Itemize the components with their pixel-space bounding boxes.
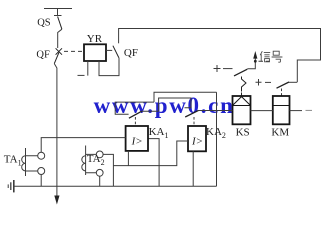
wire KS contact left stub bbox=[223, 68, 233, 70]
mechanical dashed link QF to YR bbox=[64, 50, 83, 52]
wire common run bbox=[113, 141, 188, 166]
TA1 secondary terminal top bbox=[38, 152, 45, 159]
mechanical dashed link KA2 bbox=[193, 117, 195, 126]
wire common down to bus bbox=[216, 92, 218, 186]
contactor contact KM blade bbox=[277, 82, 290, 88]
wire TA2 links bbox=[86, 154, 97, 172]
wire TA2 to common bbox=[103, 154, 113, 186]
control plus bus wire bbox=[119, 29, 321, 83]
node plus terminal KS row bbox=[214, 65, 221, 72]
KS divider and flag bbox=[233, 97, 251, 106]
QS fixed contact tick bbox=[54, 15, 62, 17]
svg-text:KA2: KA2 bbox=[206, 126, 226, 140]
wire QS to QF bbox=[58, 29, 62, 48]
current relay contact KA1 blade bbox=[129, 111, 142, 118]
wire dashed to signal bus bbox=[259, 60, 271, 62]
wire KA1 feed bbox=[115, 102, 154, 114]
YR left lead bbox=[87, 61, 89, 76]
current relay KA1 box bbox=[126, 126, 148, 151]
breaker QF blade bbox=[54, 53, 59, 64]
wire TA1 to ground bus bbox=[40, 175, 42, 187]
negative terminal dash bbox=[78, 74, 85, 76]
busbar top bbox=[44, 8, 72, 10]
dash to minus bbox=[306, 109, 313, 111]
svg-text:YR: YR bbox=[87, 33, 103, 45]
node junction dot bbox=[254, 60, 257, 63]
svg-text:TA1: TA1 bbox=[4, 154, 22, 168]
wire KA2 tip to KS coil bbox=[199, 110, 233, 112]
TA2 secondary terminal top bbox=[96, 151, 103, 158]
signal relay contact KS blade bbox=[234, 69, 247, 76]
node plus terminal KM row bbox=[256, 79, 262, 86]
aux contact QF blade bbox=[113, 46, 119, 58]
KM divider bbox=[273, 105, 290, 107]
disconnector QS blade bbox=[58, 17, 62, 30]
svg-text:I>: I> bbox=[191, 136, 203, 148]
TA1 secondary terminal bottom bbox=[38, 168, 45, 175]
signal arrow bbox=[253, 51, 257, 59]
mechanical dashed link KA1 bbox=[134, 117, 136, 126]
wire QS stub bbox=[57, 9, 59, 16]
circuit breaker QF cross bbox=[56, 48, 62, 54]
YR to QF aux wire bbox=[106, 49, 112, 51]
wire TA2 to ground bus bbox=[99, 176, 101, 186]
svg-text:I>: I> bbox=[131, 136, 143, 148]
wire KS contact to signal bbox=[247, 59, 255, 69]
TA1 winding arcs bbox=[22, 156, 26, 171]
wire KA1 coil return bbox=[127, 151, 129, 166]
current relay KA2 box bbox=[188, 126, 206, 151]
wire KM contact left stub bbox=[265, 81, 271, 83]
trip coil YR box bbox=[84, 44, 106, 61]
wire feeder down bbox=[54, 64, 57, 196]
wire KS to KM bbox=[251, 110, 273, 112]
signal relay KS box bbox=[233, 96, 251, 124]
contactor KM box bbox=[273, 96, 290, 124]
wire KM to minus bbox=[290, 110, 303, 112]
svg-text:KS: KS bbox=[236, 126, 250, 138]
wire KA1 box right lead to bus bbox=[148, 139, 159, 187]
ground bus bbox=[14, 185, 217, 187]
current transformer TA1 primary bbox=[25, 148, 27, 176]
svg-text:TA2: TA2 bbox=[87, 153, 105, 167]
mechanical dashed link KM bbox=[281, 89, 283, 96]
TA2 winding arcs bbox=[82, 156, 86, 171]
wire link lower bbox=[159, 98, 191, 111]
wire TA1 links bbox=[26, 156, 38, 171]
wire KA2 coil return bbox=[192, 151, 194, 186]
svg-text:QF: QF bbox=[124, 47, 138, 59]
svg-text:QF: QF bbox=[36, 49, 50, 60]
YR right lead wire bbox=[99, 58, 119, 76]
ground symbol bbox=[13, 180, 15, 192]
wire link upper bbox=[154, 92, 217, 102]
TA2 secondary terminal bottom bbox=[96, 169, 103, 176]
mechanical zigzag link KS bbox=[242, 77, 247, 96]
wire KA1 tip bbox=[142, 110, 159, 112]
current relay contact KA2 blade bbox=[185, 110, 198, 117]
wire KM blade to bus bbox=[289, 81, 297, 83]
svg-text:QS: QS bbox=[37, 18, 51, 29]
label signal hanzi bbox=[260, 51, 282, 62]
wire QF aux to top bus bbox=[118, 28, 120, 43]
feeder arrow bbox=[54, 196, 59, 205]
svg-text:KM: KM bbox=[271, 126, 289, 138]
current transformer TA2 primary bbox=[85, 146, 87, 176]
wire TA1 to KA1 coil bbox=[41, 138, 125, 153]
svg-text:KA1: KA1 bbox=[149, 126, 169, 140]
